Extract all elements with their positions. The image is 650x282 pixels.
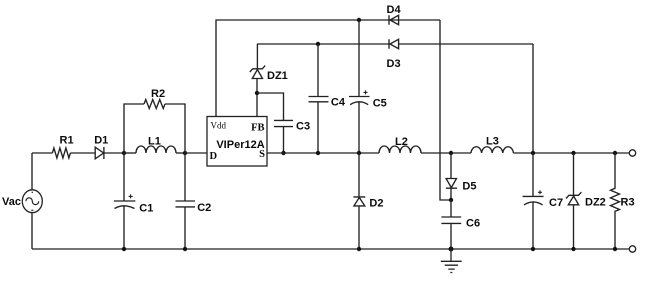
zener DZ1 [250, 44, 265, 93]
svg-text:C7: C7 [549, 197, 563, 209]
node C4 branch top [316, 42, 320, 46]
svg-text:Vdd: Vdd [211, 121, 227, 131]
node R3 top [613, 151, 617, 155]
node junction C1/R2 [122, 151, 126, 155]
node DZ2 bottom [571, 247, 575, 251]
wire main rail left segment [32, 152, 52, 154]
inductor L2 [379, 146, 421, 153]
svg-text:C1: C1 [139, 203, 153, 215]
svg-text:DZ2: DZ2 [585, 197, 606, 209]
svg-text:D: D [210, 151, 218, 162]
capacitor C1 [114, 153, 136, 249]
resistor R3 [611, 153, 620, 249]
ground [441, 249, 462, 273]
wire L2 to node [421, 152, 451, 154]
svg-text:R1: R1 [60, 135, 74, 147]
svg-text:L2: L2 [395, 136, 408, 148]
wire R2 loop left vertical [124, 104, 144, 153]
node C7/D3 [531, 151, 535, 155]
svg-text:R3: R3 [621, 197, 635, 209]
output terminal minus [629, 246, 635, 252]
wire second top rail y44 [257, 43, 533, 45]
svg-text:VIPer12A: VIPer12A [216, 139, 264, 151]
resistor R2 [144, 100, 165, 109]
wire snubber vertical from D4 down [440, 20, 451, 200]
node R3 bottom [613, 247, 617, 251]
diode D4 [389, 15, 399, 24]
node C2 bottom [183, 247, 187, 251]
svg-text:Vac: Vac [2, 196, 21, 208]
wire FB pin up [256, 93, 258, 117]
node DZ2 top [571, 151, 575, 155]
svg-text:C4: C4 [331, 97, 346, 109]
node ground/C6 [449, 247, 454, 252]
wire left branch upper [31, 153, 33, 190]
svg-text:C6: C6 [466, 217, 480, 229]
wire L1 to node [176, 152, 185, 154]
source Vac [22, 190, 42, 213]
svg-text:C5: C5 [373, 97, 387, 109]
svg-text:D4: D4 [387, 4, 402, 16]
svg-text:D3: D3 [387, 58, 401, 70]
svg-text:R2: R2 [151, 88, 165, 100]
svg-text:DZ1: DZ1 [267, 70, 288, 82]
node C1 bottom [122, 247, 126, 251]
diode D1 [95, 147, 104, 159]
capacitor C7 [523, 153, 544, 249]
diode D2 [353, 153, 365, 249]
op-amp U1 VIPer12A box [207, 117, 267, 167]
wire node to L1 [124, 152, 136, 154]
wire node to L3 [451, 152, 471, 154]
wire L3 to output [513, 152, 629, 154]
node FB / C3 branch [255, 91, 259, 95]
svg-text:C2: C2 [197, 202, 211, 214]
node D2 bottom [357, 247, 361, 251]
capacitor C2 [176, 153, 196, 249]
capacitor C6 [441, 200, 461, 249]
node C4 to rail [316, 151, 320, 155]
node D5/C6/snubber [449, 198, 453, 202]
svg-text:S: S [259, 149, 265, 160]
node C7 bottom [531, 247, 535, 251]
inductor L3 [471, 147, 513, 153]
svg-text:C3: C3 [296, 121, 310, 133]
resistor R1 [52, 148, 70, 158]
svg-text:D1: D1 [94, 135, 108, 147]
svg-text:D2: D2 [369, 197, 383, 209]
inductor L1 [136, 146, 176, 153]
wire D3 return vertical [532, 44, 534, 153]
zener DZ2 [566, 153, 581, 249]
node C3 to rail [281, 151, 285, 155]
node top rail / C5 branch [357, 18, 361, 22]
wire node to VIPer D pin [185, 152, 207, 154]
wire D1 to node [104, 152, 124, 154]
wire S pin to L2 [267, 152, 379, 154]
node L2/D5 [449, 151, 453, 155]
capacitor C3 [257, 93, 293, 153]
wire R1 to D1 [70, 152, 95, 154]
wire bottom rail [32, 248, 629, 250]
svg-text:FB: FB [251, 123, 264, 134]
capacitor C4 [309, 44, 329, 153]
diode D5 [446, 153, 457, 200]
wire Vdd pin up and top rail [216, 20, 440, 117]
wire R2 loop right vertical [165, 104, 185, 153]
svg-text:L3: L3 [486, 135, 499, 147]
svg-text:D5: D5 [462, 181, 476, 193]
svg-text:L1: L1 [148, 136, 161, 148]
node C5/D2 rail [357, 151, 361, 155]
diode D3 [389, 39, 399, 48]
wire left branch lower [31, 213, 33, 250]
node junction C2/R2 [183, 151, 187, 155]
capacitor C5 [349, 20, 370, 153]
output terminal plus [629, 150, 635, 156]
